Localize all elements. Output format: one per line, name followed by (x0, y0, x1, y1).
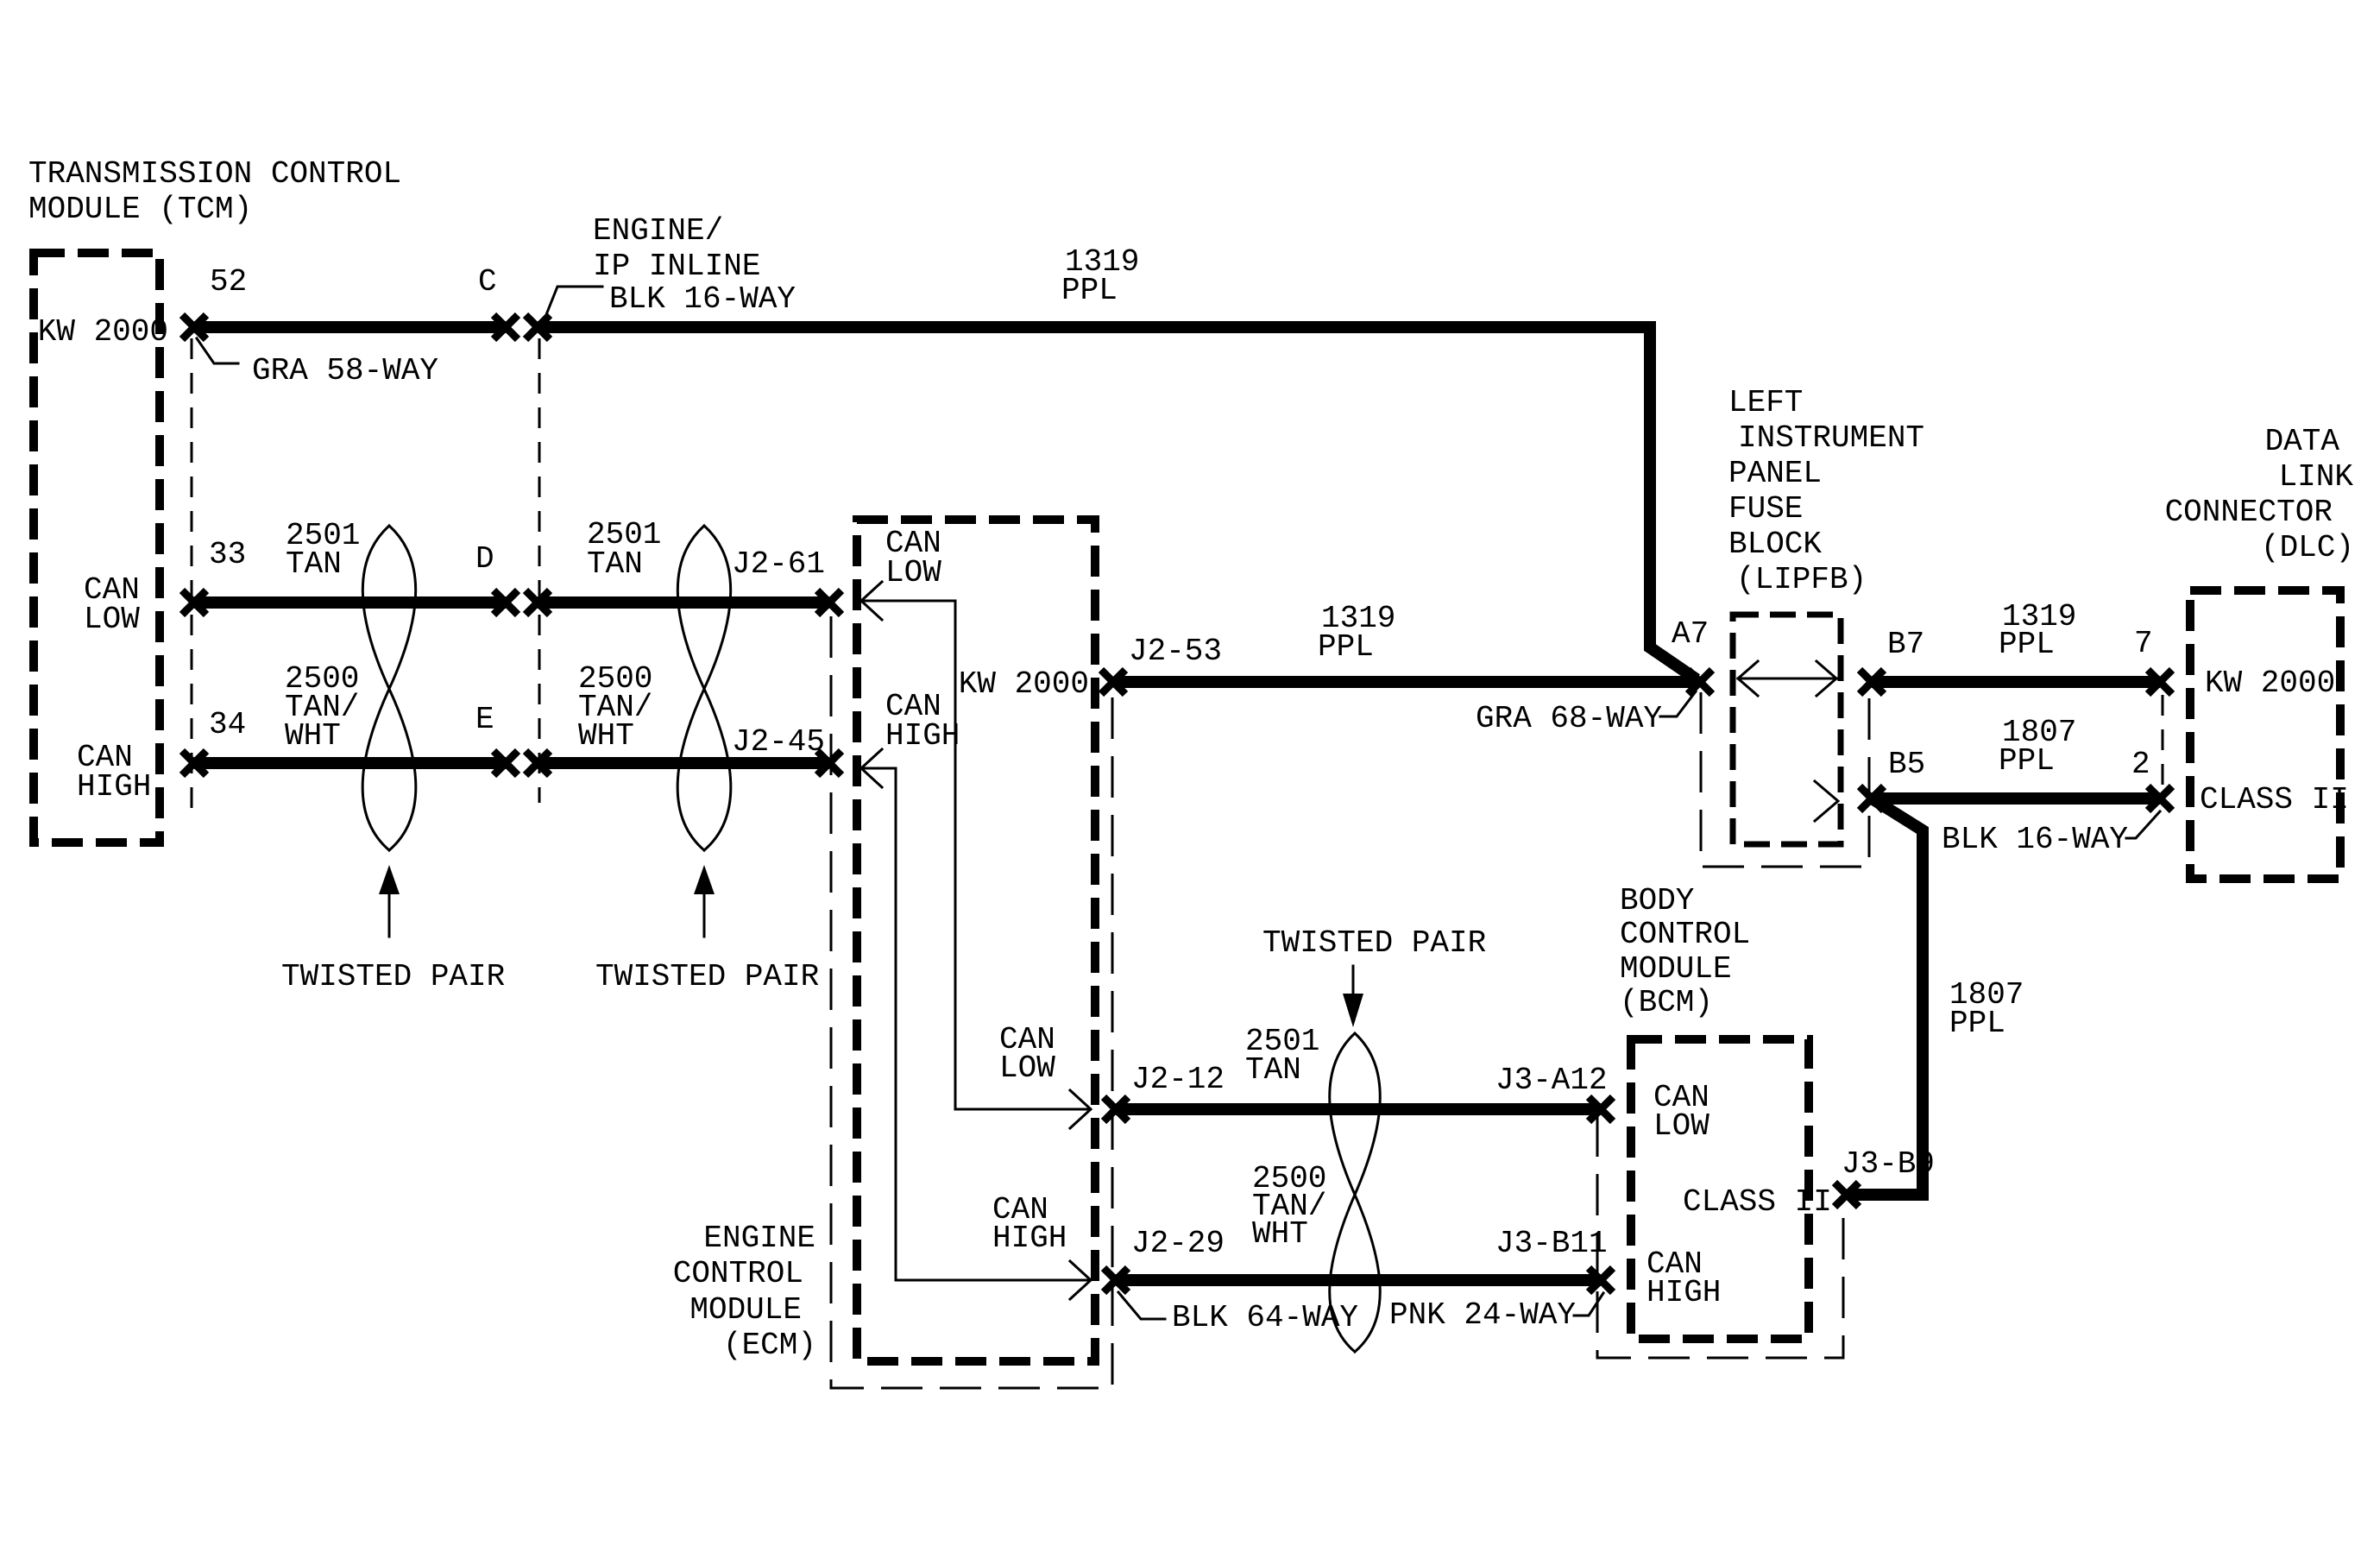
svg-text:(LIPFB): (LIPFB) (1736, 562, 1867, 597)
wire end X at J3-A12 (1589, 1097, 1613, 1121)
svg-text:BLK 16-WAY: BLK 16-WAY (609, 281, 796, 317)
leader BLK 64-WAY (1118, 1292, 1165, 1319)
svg-text:PPL: PPL (1999, 743, 2055, 779)
svg-text:LINK: LINK (2279, 459, 2354, 495)
svg-text:GRA 58-WAY: GRA 58-WAY (252, 353, 438, 388)
svg-text:BLOCK: BLOCK (1728, 527, 1822, 562)
svg-text:J2-45: J2-45 (732, 724, 825, 760)
label 1319 PPL (B7 wire) (1999, 599, 2076, 662)
svg-text:KW 2000: KW 2000 (2205, 666, 2335, 701)
leader GRA 68-WAY (1660, 691, 1696, 716)
wire end X at B7 (1860, 670, 1884, 694)
svg-text:34: 34 (209, 707, 246, 742)
label CAN LOW (ECM lower) (999, 1022, 1055, 1086)
svg-text:2: 2 (2131, 747, 2150, 782)
wire value 2501 TAN (inline) (587, 517, 661, 582)
svg-text:TWISTED PAIR: TWISTED PAIR (281, 959, 505, 994)
svg-text:J2-53: J2-53 (1129, 634, 1222, 669)
svg-text:MODULE: MODULE (689, 1292, 802, 1328)
svg-text:J2-29: J2-29 (1131, 1226, 1225, 1261)
wire CAN LOW TCM pin 33 to D (194, 596, 506, 609)
leader GRA 58-WAY (197, 338, 238, 363)
inline connector dashed line (ENGINE/IP INLINE) (538, 338, 541, 803)
wire 1807 PPL B5 to DLC 2 (1872, 792, 2160, 805)
svg-text:CLASS II: CLASS II (1683, 1184, 1832, 1220)
svg-text:PPL: PPL (1949, 1006, 2005, 1041)
svg-text:J2-61: J2-61 (732, 546, 825, 582)
svg-text:HIGH: HIGH (77, 769, 151, 805)
connector box DLC (Data Link Connector) (2190, 590, 2340, 879)
svg-text:GRA 68-WAY: GRA 68-WAY (1476, 701, 1662, 736)
svg-text:7: 7 (2134, 626, 2153, 661)
wire junction X at J3-B9 (1835, 1183, 1859, 1207)
wire 1807 PPL branch B5 down to J3-B9 (1850, 798, 1923, 1195)
svg-text:CONTROL: CONTROL (673, 1256, 803, 1291)
wire value 2501 TAN (TCM) (286, 518, 360, 582)
twisted pair 2 arrow (694, 865, 715, 937)
wire 2500 TAN/WHT inline to J2-45 (538, 757, 829, 769)
svg-text:ENGINE/: ENGINE/ (593, 213, 723, 249)
svg-text:CONTROL: CONTROL (1620, 917, 1750, 952)
wire value 2500 TAN/WHT (inline) (578, 661, 652, 754)
svg-text:J2-12: J2-12 (1131, 1062, 1225, 1097)
label 1807 PPL (vertical run) (1949, 977, 2024, 1041)
svg-text:WHT: WHT (285, 718, 341, 754)
svg-text:LOW: LOW (84, 602, 140, 637)
wire KW2000 J2-53 to A7 (1115, 676, 1697, 688)
svg-text:D: D (475, 541, 494, 577)
label CAN HIGH (BCM) (1646, 1246, 1721, 1310)
wire end X at TCM 33 (182, 590, 206, 615)
module box BCM (Body Control Module) (1631, 1039, 1809, 1339)
svg-text:CLASS II: CLASS II (2200, 782, 2349, 817)
svg-text:PPL: PPL (1061, 273, 1118, 308)
leader BLK 16-WAY inline (542, 287, 602, 325)
svg-text:A7: A7 (1672, 616, 1709, 652)
wire end X at J2-61 (817, 590, 841, 615)
svg-text:(DLC): (DLC) (2261, 530, 2354, 565)
module box ECM (Engine Control Module) (857, 520, 1095, 1361)
ECM internal CAN HIGH routing line with open arrows (861, 749, 1091, 1299)
wire end X at J2-29 (1104, 1268, 1128, 1292)
svg-text:B5: B5 (1888, 747, 1925, 782)
label CAN LOW (TCM) (84, 572, 140, 637)
twisted pair 3 arrow (down) (1343, 966, 1363, 1027)
TCM connector face dashed line (191, 338, 193, 820)
TCM title text (28, 156, 401, 227)
wire end X at J2-45 (817, 751, 841, 775)
label CAN HIGH (TCM) (77, 740, 151, 805)
svg-text:BODY: BODY (1620, 883, 1694, 918)
ENGINE/IP INLINE title (593, 213, 796, 317)
ECM title text (673, 1221, 816, 1363)
LIPFB internal double arrow (1738, 661, 1836, 696)
wire 2501 TAN inline to J2-61 (538, 596, 829, 609)
BCM phantom outline (1597, 1115, 1843, 1358)
twisted pair symbol 1 (362, 526, 416, 850)
svg-text:TRANSMISSION CONTROL: TRANSMISSION CONTROL (28, 156, 401, 192)
svg-text:(ECM): (ECM) (723, 1328, 816, 1363)
svg-text:B7: B7 (1887, 627, 1924, 662)
svg-text:PPL: PPL (1318, 629, 1374, 665)
wire value 2501 TAN (BCM wire) (1245, 1024, 1319, 1088)
svg-text:LOW: LOW (885, 555, 941, 590)
svg-text:KW 2000: KW 2000 (38, 314, 168, 350)
svg-text:WHT: WHT (578, 718, 634, 754)
svg-text:C: C (478, 264, 497, 300)
module box TCM (Transmission Control Module) (34, 253, 160, 842)
wire 2501 TAN J2-12 to J3-A12 (1116, 1103, 1601, 1115)
wire end X at J3-B11 (1589, 1268, 1613, 1292)
wire end X at TCM 52 (182, 315, 206, 339)
svg-text:HIGH: HIGH (885, 718, 960, 754)
label 1807 PPL (B5 wire) (1999, 715, 2076, 779)
svg-text:LEFT: LEFT (1728, 385, 1803, 420)
svg-text:DATA: DATA (2265, 424, 2340, 459)
wire junction X at A7 (1688, 670, 1712, 694)
svg-text:TWISTED PAIR: TWISTED PAIR (595, 959, 819, 994)
label 1319 PPL (top wire) (1061, 244, 1139, 308)
label CAN HIGH (ECM upper) (885, 689, 960, 754)
wire end X at C (494, 315, 518, 339)
svg-text:LOW: LOW (1653, 1108, 1709, 1144)
wire 1319 PPL B7 to DLC 7 (1872, 676, 2160, 688)
svg-text:52: 52 (210, 264, 247, 300)
svg-text:LOW: LOW (999, 1051, 1055, 1086)
wire value 2500 TAN/WHT (BCM wire) (1252, 1161, 1326, 1252)
svg-text:E: E (475, 702, 494, 737)
svg-text:MODULE (TCM): MODULE (TCM) (28, 192, 252, 227)
label 1319 PPL (J2-53 wire) (1318, 601, 1395, 665)
wire end X at DLC 7 (2148, 670, 2172, 694)
svg-text:CONNECTOR: CONNECTOR (2165, 495, 2333, 530)
svg-text:BLK 64-WAY: BLK 64-WAY (1172, 1300, 1358, 1335)
svg-text:BLK 16-WAY: BLK 16-WAY (1942, 822, 2128, 857)
ECM internal CAN LOW routing line with open arrows (861, 582, 1091, 1128)
wire value 2500 TAN/WHT (TCM) (285, 661, 359, 754)
label CAN LOW (BCM) (1653, 1080, 1709, 1144)
wire end X inline E side (526, 751, 550, 775)
svg-text:TAN: TAN (1245, 1052, 1301, 1088)
svg-text:(BCM): (BCM) (1620, 985, 1713, 1020)
LIPFB title text (1728, 385, 1924, 597)
twisted pair 1 arrow (379, 865, 400, 937)
wire CAN HIGH TCM pin 34 to E (194, 757, 506, 769)
fuse block box LIPFB (1733, 615, 1841, 844)
wire end X at J2-53 (1101, 670, 1125, 694)
svg-text:J3-B11: J3-B11 (1495, 1226, 1608, 1261)
label CAN LOW (ECM upper) (885, 526, 941, 590)
svg-text:TAN: TAN (587, 546, 643, 582)
wire end X at B5 (1860, 786, 1884, 811)
ECM phantom outline (831, 616, 1112, 1388)
svg-text:IP INLINE: IP INLINE (593, 249, 760, 284)
svg-text:KW 2000: KW 2000 (959, 666, 1089, 702)
svg-text:PNK 24-WAY: PNK 24-WAY (1389, 1297, 1576, 1333)
twisted pair symbol 3 (1330, 1033, 1381, 1352)
leader BLK 16-WAY (DLC) (2126, 811, 2160, 838)
wire end X at J2-12 (1104, 1097, 1128, 1121)
wire end X inline D side (526, 590, 550, 615)
svg-text:PANEL: PANEL (1728, 456, 1822, 491)
wire end X at inline C side (526, 315, 550, 339)
svg-text:HIGH: HIGH (1646, 1275, 1721, 1310)
wire end X at D (494, 590, 518, 615)
wire 2500 TAN/WHT J2-29 to J3-B11 (1116, 1274, 1601, 1286)
svg-text:FUSE: FUSE (1728, 491, 1803, 527)
wire end X at DLC 2 (2148, 786, 2172, 811)
wire end X at TCM 34 (182, 751, 206, 775)
wire KW2000 TCM pin 52 to C (194, 321, 506, 333)
leader PNK 24-WAY (1574, 1293, 1603, 1316)
svg-text:MODULE: MODULE (1620, 951, 1732, 987)
wire end X at E (494, 751, 518, 775)
svg-text:J3-B9: J3-B9 (1842, 1146, 1935, 1182)
svg-text:TWISTED PAIR: TWISTED PAIR (1262, 925, 1486, 961)
svg-text:WHT: WHT (1252, 1216, 1308, 1252)
BCM title text (1620, 883, 1750, 1020)
twisted pair symbol 2 (677, 526, 731, 850)
svg-text:33: 33 (209, 537, 246, 572)
svg-text:PPL: PPL (1999, 627, 2055, 662)
svg-text:ENGINE: ENGINE (703, 1221, 815, 1256)
LIPFB internal lower arrow (1815, 781, 1838, 821)
DLC connector face dashed line (2162, 695, 2164, 787)
LIPFB phantom outline (1701, 689, 1869, 867)
svg-text:HIGH: HIGH (992, 1221, 1067, 1256)
svg-text:INSTRUMENT: INSTRUMENT (1738, 420, 1924, 456)
wire 1319 PPL from C-inline to A7 (LIPFB) (538, 327, 1697, 679)
label CAN HIGH (ECM lower) (992, 1192, 1067, 1256)
DLC title text (2165, 424, 2354, 565)
svg-text:TAN: TAN (286, 546, 342, 582)
svg-text:J3-A12: J3-A12 (1495, 1063, 1608, 1098)
